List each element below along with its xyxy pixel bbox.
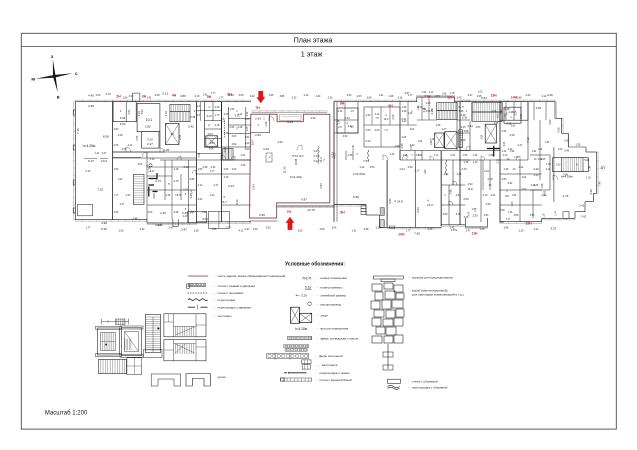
svg-text:1.30: 1.30 [586, 177, 591, 180]
musoroprovod circle near stair [149, 164, 152, 167]
svg-text:1.09: 1.09 [589, 166, 592, 171]
svg-text:дверь эстакадная с окном: дверь эстакадная с окном [321, 337, 359, 341]
svg-text:3.42: 3.42 [538, 158, 543, 161]
svg-text:2.37: 2.37 [183, 189, 188, 192]
svg-text:2.63: 2.63 [522, 188, 527, 191]
svg-text:6.76: 6.76 [563, 194, 569, 198]
svg-text:2.54: 2.54 [211, 166, 216, 169]
svg-text:1.03: 1.03 [478, 90, 483, 93]
svg-text:7Н: 7Н [287, 210, 292, 214]
svg-text:1.80: 1.80 [424, 169, 427, 174]
svg-text:2.63: 2.63 [255, 117, 261, 121]
svg-text:2.63: 2.63 [96, 94, 101, 97]
svg-text:3.04: 3.04 [410, 128, 415, 131]
svg-text:3.86: 3.86 [464, 130, 469, 133]
svg-text:9: 9 [576, 162, 578, 166]
svg-text:1.55: 1.55 [269, 94, 274, 97]
svg-text:2.05: 2.05 [435, 95, 440, 98]
svg-text:2.50: 2.50 [499, 208, 505, 212]
svg-text:4.12: 4.12 [239, 230, 244, 233]
legend left column [188, 275, 208, 277]
svg-text:1.55: 1.55 [576, 144, 581, 147]
svg-text:3.53: 3.53 [476, 126, 481, 129]
svg-text:с: с [75, 71, 78, 76]
svg-text:4.40: 4.40 [547, 93, 553, 97]
svg-text:мусоропровод: мусоропровод [321, 302, 342, 306]
svg-text:3.04: 3.04 [367, 96, 372, 99]
svg-text:11: 11 [210, 140, 213, 144]
svg-text:1.55: 1.55 [477, 95, 482, 98]
svg-text:2.05: 2.05 [428, 228, 433, 231]
svg-text:перегородки с дверьми: перегородки с дверьми [218, 305, 252, 309]
svg-text:-: - [408, 386, 409, 390]
svg-text:-: - [317, 286, 318, 290]
detail: stair run E [98, 359, 126, 373]
svg-text:3.15: 3.15 [485, 202, 491, 206]
svg-text:3.13: 3.13 [234, 114, 240, 118]
svg-text:14Н: 14Н [511, 96, 518, 100]
svg-text:1.34: 1.34 [224, 132, 229, 135]
svg-text:3.16: 3.16 [375, 113, 380, 116]
svg-text:h=4.05м: h=4.05м [561, 174, 573, 178]
svg-text:1.34: 1.34 [473, 154, 478, 157]
svg-text:2.20: 2.20 [210, 194, 215, 197]
svg-text:5.36: 5.36 [462, 117, 467, 120]
svg-text:1.41: 1.41 [95, 152, 100, 155]
svg-text:2.61: 2.61 [506, 122, 512, 126]
svg-text:2.18: 2.18 [215, 124, 220, 127]
svg-text:7.52: 7.52 [97, 187, 103, 191]
svg-text:3.92: 3.92 [508, 182, 513, 185]
svg-text:-: - [315, 354, 316, 358]
svg-text:3.16: 3.16 [150, 158, 155, 161]
svg-text:1.94: 1.94 [538, 148, 543, 151]
svg-text:стена с проемами: стена с проемами [218, 291, 244, 295]
svg-text:1П: 1П [600, 166, 605, 170]
svg-text:2.28: 2.28 [364, 228, 369, 231]
svg-text:4.56: 4.56 [319, 183, 323, 189]
svg-text:2.28: 2.28 [402, 110, 407, 113]
svg-text:6.94: 6.94 [416, 207, 420, 213]
svg-text:2.20: 2.20 [542, 194, 547, 197]
svg-text:3.53: 3.53 [198, 198, 203, 201]
svg-text:4.12: 4.12 [128, 144, 133, 147]
svg-text:3.28: 3.28 [301, 293, 307, 297]
svg-text:2.20: 2.20 [245, 143, 250, 145]
svg-text:0.93: 0.93 [564, 140, 569, 143]
svg-text:2.15: 2.15 [483, 194, 488, 197]
svg-text:72.2: 72.2 [298, 154, 304, 158]
svg-text:2.50: 2.50 [463, 197, 469, 201]
svg-text:10.2: 10.2 [101, 159, 107, 163]
svg-text:1.91: 1.91 [118, 178, 123, 181]
S5 top-left room partitions [357, 102, 359, 133]
svg-text:1.38: 1.38 [417, 105, 420, 110]
svg-text:3.43: 3.43 [277, 140, 283, 144]
svg-text:номер комнаты: номер комнаты [321, 286, 344, 290]
svg-text:1.77: 1.77 [210, 170, 215, 173]
svg-text:5.36: 5.36 [459, 110, 464, 113]
svg-text:10: 10 [170, 132, 174, 136]
svg-text:ю: ю [31, 77, 35, 82]
svg-text:4.12: 4.12 [546, 168, 551, 171]
svg-text:3.86: 3.86 [504, 227, 509, 230]
svg-text:3.86: 3.86 [212, 228, 217, 231]
svg-text:-: - [408, 275, 409, 279]
svg-text:перегородки: перегородки [218, 298, 236, 302]
svg-text:2.93: 2.93 [467, 182, 473, 186]
svg-text:3.04: 3.04 [129, 95, 134, 98]
svg-text:1.77: 1.77 [219, 96, 224, 99]
svg-text:1.91: 1.91 [418, 140, 423, 143]
svg-text:2.05: 2.05 [119, 230, 124, 233]
svg-text:1.74: 1.74 [555, 211, 558, 216]
detail: stair block D [164, 340, 206, 361]
detail: kitchen bracket F2 [186, 374, 210, 387]
svg-text:2.35: 2.35 [352, 145, 355, 150]
detail: elevator shaft A [97, 328, 119, 355]
svg-text:1.34: 1.34 [545, 141, 550, 144]
svg-text:3.42: 3.42 [457, 96, 462, 99]
svg-text:1.91: 1.91 [402, 106, 407, 109]
svg-text:10.88: 10.88 [294, 158, 298, 165]
svg-text:Масштаб 1:200: Масштаб 1:200 [45, 410, 88, 416]
svg-text:11Н: 11Н [471, 232, 478, 236]
svg-text:1.93: 1.93 [422, 91, 427, 94]
svg-text:2.29: 2.29 [215, 106, 220, 109]
svg-text:2.25: 2.25 [348, 154, 353, 157]
svg-text:3.03: 3.03 [375, 129, 380, 132]
svg-text:высота помещения: высота помещения [321, 326, 349, 330]
svg-text:2.05: 2.05 [114, 144, 119, 147]
svg-text:3.53: 3.53 [347, 94, 352, 97]
svg-text:3.42: 3.42 [581, 215, 587, 219]
svg-text:1.98: 1.98 [395, 145, 400, 148]
svg-text:2.88: 2.88 [450, 189, 453, 194]
extra mid-band walls [345, 151, 347, 161]
svg-text:лифт: лифт [321, 313, 329, 317]
svg-text:2.20: 2.20 [126, 194, 131, 197]
svg-text:2.28: 2.28 [238, 126, 243, 129]
svg-text:-: - [214, 298, 215, 302]
svg-text:2.04: 2.04 [520, 113, 523, 118]
svg-text:4.00: 4.00 [401, 143, 404, 148]
svg-text:1.34: 1.34 [430, 138, 435, 141]
svg-text:2.29: 2.29 [461, 114, 466, 117]
svg-text:1.40: 1.40 [390, 153, 395, 156]
svg-text:1.64: 1.64 [491, 194, 496, 197]
svg-text:3.50: 3.50 [536, 106, 542, 110]
svg-text:1.91: 1.91 [202, 211, 207, 214]
svg-text:2.09: 2.09 [366, 129, 371, 132]
svg-text:2.24: 2.24 [360, 166, 365, 169]
svg-text:2.16: 2.16 [338, 110, 343, 113]
svg-text:2.50: 2.50 [472, 214, 478, 218]
svg-text:1.77: 1.77 [114, 194, 119, 197]
dark fixture marks x148-158 (WC block) [149, 178, 158, 180]
svg-text:10.1: 10.1 [146, 118, 153, 122]
svg-text:2.63: 2.63 [148, 211, 153, 214]
svg-text:3.90: 3.90 [564, 149, 570, 153]
svg-text:2.26: 2.26 [163, 148, 169, 152]
svg-text:3.86: 3.86 [514, 214, 519, 217]
svg-text:1.77: 1.77 [460, 106, 465, 109]
svg-text:11Н: 11Н [424, 95, 431, 99]
svg-text:3.04: 3.04 [232, 168, 237, 171]
svg-text:7Н:П: 7Н:П [302, 275, 311, 280]
detail: kitchen bracket F1 [151, 374, 181, 386]
svg-text:1.05: 1.05 [461, 139, 466, 142]
svg-text:-: - [317, 293, 318, 297]
wavy partition symbols [318, 146, 319, 164]
section S5 unit 8H [333, 102, 335, 222]
svg-text:1.77: 1.77 [86, 227, 91, 230]
svg-text:2.47: 2.47 [183, 215, 188, 218]
svg-text:2.55: 2.55 [135, 135, 139, 141]
svg-text:3.66: 3.66 [287, 120, 293, 124]
svg-text:10.2: 10.2 [383, 117, 389, 121]
svg-text:3.42: 3.42 [241, 164, 246, 167]
svg-text:-: - [214, 291, 215, 295]
svg-text:3.42: 3.42 [140, 228, 145, 231]
svg-text:3.17: 3.17 [414, 169, 420, 173]
svg-text:1.77: 1.77 [506, 218, 511, 221]
svg-text:2.20: 2.20 [526, 94, 531, 97]
svg-text:2Н: 2Н [116, 95, 121, 99]
svg-text:3.24: 3.24 [228, 184, 234, 188]
svg-text:4.75: 4.75 [173, 179, 179, 183]
svg-text:3.86: 3.86 [190, 178, 195, 181]
svg-text:2.28: 2.28 [118, 134, 123, 137]
rooms x430-460 bottom partitions [441, 184, 465, 186]
svg-text:4.12: 4.12 [198, 184, 203, 187]
svg-text:2.20: 2.20 [519, 230, 524, 233]
svg-text:2.33: 2.33 [164, 111, 168, 117]
svg-text:4.40: 4.40 [88, 94, 94, 98]
svg-text:1.10: 1.10 [473, 161, 478, 164]
svg-text:-: - [408, 289, 409, 293]
svg-text:2.93: 2.93 [484, 214, 489, 217]
svg-text:3.16: 3.16 [398, 96, 403, 99]
svg-text:-: - [317, 313, 318, 317]
svg-text:перегородка с обшивкой: перегородка с обшивкой [412, 386, 448, 390]
svg-text:2.74: 2.74 [416, 154, 421, 157]
svg-text:-: - [318, 363, 319, 367]
svg-text:3.86: 3.86 [517, 96, 522, 99]
svg-text:2.74: 2.74 [457, 173, 462, 176]
svg-text:3.13: 3.13 [206, 114, 212, 118]
svg-text:1.55: 1.55 [122, 148, 127, 151]
svg-text:4.12: 4.12 [304, 94, 309, 97]
svg-text:стена с верхней базой: стена с верхней базой [320, 378, 352, 382]
svg-text:6.30: 6.30 [235, 199, 239, 205]
svg-text:1Н: 1Н [133, 217, 138, 221]
svg-text:2.83: 2.83 [502, 178, 507, 181]
svg-text:2.20: 2.20 [226, 227, 231, 230]
svg-text:2.56: 2.56 [123, 97, 128, 100]
svg-text:4.83: 4.83 [333, 153, 337, 159]
extra top band partitions right half [505, 102, 507, 121]
svg-text:2.42: 2.42 [468, 211, 471, 216]
svg-text:2.63: 2.63 [114, 128, 119, 131]
svg-text:1.94: 1.94 [512, 194, 517, 197]
svg-text:2.47: 2.47 [466, 230, 471, 233]
svg-text:3.16: 3.16 [492, 110, 497, 113]
svg-text:-: - [408, 379, 409, 383]
svg-text:5Н: 5Н [207, 95, 212, 99]
svg-text:кухни: кухни [218, 375, 226, 379]
svg-text:4.22: 4.22 [519, 166, 524, 169]
svg-text:1.91: 1.91 [532, 150, 537, 153]
svg-text:9.62: 9.62 [101, 227, 107, 231]
svg-text:6.27: 6.27 [88, 159, 94, 163]
svg-text:3.04: 3.04 [251, 140, 255, 146]
svg-text:4.73: 4.73 [155, 179, 161, 183]
svg-text:24.6: 24.6 [397, 200, 403, 204]
svg-text:3.47: 3.47 [102, 152, 107, 155]
svg-text:8Н: 8Н [340, 102, 345, 106]
svg-text:линейный размер: линейный размер [321, 293, 347, 297]
svg-text:2.28: 2.28 [265, 121, 268, 126]
svg-text:1.66: 1.66 [442, 93, 447, 96]
svg-text:-: - [214, 305, 215, 309]
svg-text:7.22: 7.22 [410, 145, 413, 150]
svg-text:3.86: 3.86 [180, 94, 186, 98]
svg-text:4.12: 4.12 [542, 95, 547, 98]
svg-text:10Н: 10Н [398, 232, 405, 236]
svg-text:1.91: 1.91 [379, 94, 384, 97]
svg-text:2.24: 2.24 [399, 167, 405, 171]
svg-text:2.28: 2.28 [436, 124, 441, 127]
svg-text:корзина для кондиционеров: корзина для кондиционеров [412, 275, 453, 279]
svg-text:3.18: 3.18 [174, 168, 179, 171]
svg-text:2.93: 2.93 [502, 130, 507, 133]
svg-text:1.94: 1.94 [488, 154, 493, 157]
detail: top strip [102, 321, 129, 323]
svg-text:-: - [214, 284, 215, 288]
svg-text:2.87: 2.87 [181, 227, 187, 231]
detail: stair block C [164, 314, 206, 337]
svg-text:h=4.25м: h=4.25м [83, 144, 96, 148]
svg-text:3.53: 3.53 [298, 230, 303, 233]
svg-text:2.18: 2.18 [487, 177, 493, 181]
svg-text:3.04: 3.04 [202, 217, 208, 221]
svg-text:для прокладки коммуникаций и т: для прокладки коммуникаций и т.д.) [412, 293, 464, 297]
svg-text:2.48: 2.48 [504, 107, 510, 111]
svg-text:3.53: 3.53 [530, 214, 535, 217]
svg-text:3.16: 3.16 [195, 95, 200, 98]
svg-text:7.40: 7.40 [598, 181, 602, 187]
svg-text:7Н: 7Н [255, 106, 260, 110]
svg-text:2.28: 2.28 [426, 102, 431, 105]
svg-text:2.04: 2.04 [515, 110, 518, 115]
svg-text:2.63: 2.63 [120, 116, 126, 120]
svg-text:-: - [316, 371, 317, 375]
svg-text:13Н: 13Н [490, 94, 497, 98]
svg-text:2.47: 2.47 [442, 128, 447, 131]
svg-text:0.15: 0.15 [86, 170, 91, 173]
svg-text:2.63: 2.63 [230, 126, 235, 129]
svg-text:1.77: 1.77 [406, 230, 411, 233]
svg-text:2.18: 2.18 [484, 170, 489, 173]
svg-text:3.03: 3.03 [232, 135, 237, 138]
long corridor lines [113, 151, 197, 153]
svg-text:1.91: 1.91 [245, 136, 250, 139]
svg-text:2.20: 2.20 [292, 96, 297, 99]
section S8 right end [500, 101, 555, 103]
svg-text:2.05: 2.05 [224, 113, 229, 116]
svg-text:2.85: 2.85 [145, 125, 151, 129]
svg-text:2.47: 2.47 [468, 94, 473, 97]
svg-text:2.04: 2.04 [198, 152, 201, 157]
svg-text:5.1а: 5.1а [305, 285, 311, 289]
svg-text:2.93: 2.93 [224, 168, 229, 171]
svg-text:3.04: 3.04 [138, 163, 143, 166]
svg-text:1 этаж: 1 этаж [301, 49, 323, 58]
svg-text:2.28: 2.28 [510, 134, 515, 137]
main section divider walls (thick) [112, 102, 114, 220]
svg-text:5.60: 5.60 [548, 119, 552, 125]
svg-text:6.86: 6.86 [353, 195, 359, 199]
svg-text:3.42: 3.42 [184, 166, 189, 169]
svg-text:7.35: 7.35 [76, 128, 80, 134]
svg-text:3.16: 3.16 [224, 176, 229, 179]
svg-text:2.05: 2.05 [402, 136, 407, 139]
svg-text:3.86: 3.86 [245, 148, 250, 151]
svg-text:6.21: 6.21 [497, 113, 500, 118]
svg-text:8.8: 8.8 [505, 194, 509, 198]
svg-text:0.20: 0.20 [366, 140, 371, 143]
svg-text:4.43: 4.43 [511, 201, 514, 206]
svg-text:0.92: 0.92 [402, 118, 407, 121]
svg-text:1.12: 1.12 [429, 91, 434, 94]
svg-text:h=4.20м: h=4.20м [290, 175, 302, 179]
svg-text:2.93: 2.93 [328, 96, 333, 99]
svg-text:1.77: 1.77 [408, 94, 413, 97]
svg-text:2.05: 2.05 [178, 134, 182, 140]
svg-text:2.93: 2.93 [266, 227, 271, 230]
svg-text:1: 1 [120, 109, 122, 113]
svg-text:1.74: 1.74 [434, 154, 439, 157]
compass rose [53, 59, 56, 76]
svg-text:2.47: 2.47 [120, 203, 125, 206]
svg-text:номер помещения: номер помещения [321, 276, 348, 280]
svg-text:5.56: 5.56 [557, 127, 561, 133]
svg-text:2.63: 2.63 [320, 228, 325, 231]
svg-text:2.28: 2.28 [389, 95, 394, 98]
svg-text:4.52: 4.52 [140, 109, 144, 115]
svg-text:-: - [317, 326, 318, 330]
svg-text:-: - [214, 314, 215, 318]
svg-text:1.77: 1.77 [211, 92, 216, 95]
unit 7H interior [252, 111, 327, 113]
section S2 units 1H-4H [113, 101, 197, 103]
svg-text:2.39: 2.39 [223, 117, 226, 122]
svg-text:2.17: 2.17 [150, 170, 155, 173]
svg-text:3.16: 3.16 [423, 107, 426, 112]
svg-text:3.32: 3.32 [343, 135, 348, 138]
svg-text:1.34: 1.34 [316, 95, 321, 98]
svg-text:стена с окнами и дверьми: стена с окнами и дверьми [218, 284, 256, 288]
svg-text:13.76: 13.76 [307, 208, 315, 212]
svg-text:2.10: 2.10 [503, 154, 508, 157]
svg-text:1.03: 1.03 [558, 148, 563, 151]
svg-text:3.41: 3.41 [310, 116, 316, 120]
svg-text:2.47: 2.47 [244, 227, 250, 231]
svg-text:-: - [316, 378, 317, 382]
svg-text:3.42: 3.42 [250, 95, 255, 98]
section S3 units 5H 6H [196, 101, 250, 103]
